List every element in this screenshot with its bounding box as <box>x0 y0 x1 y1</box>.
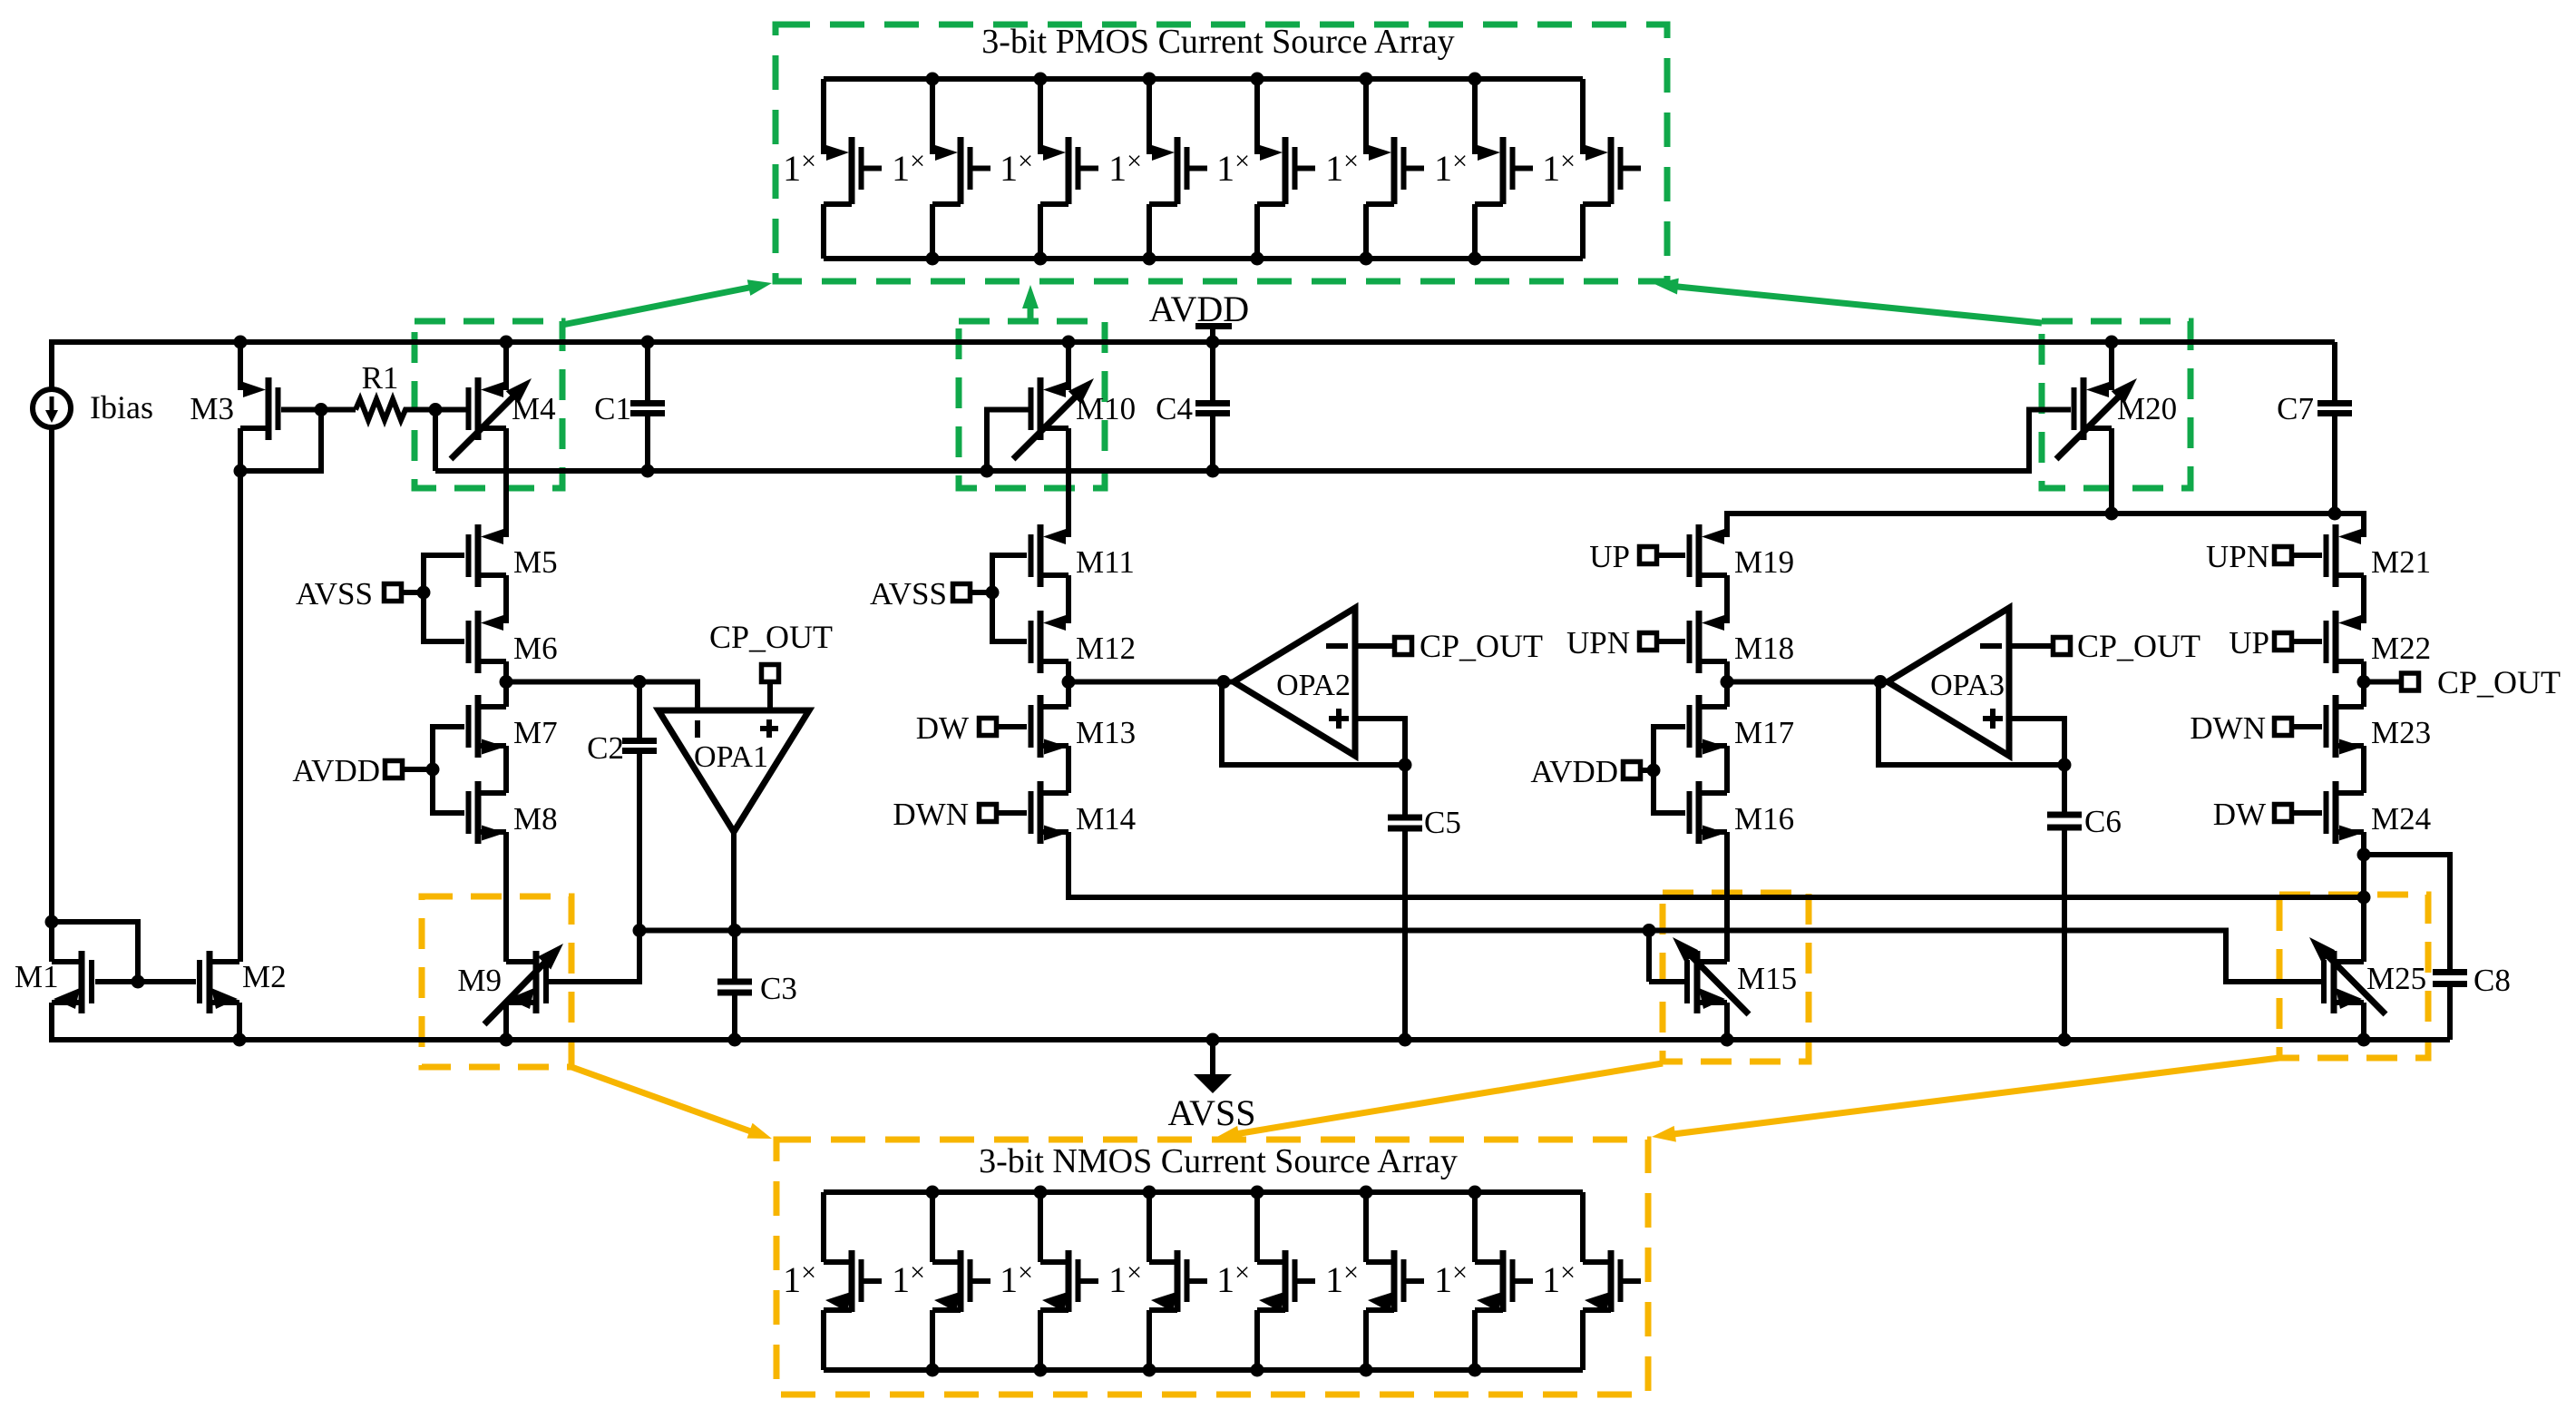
PMOS array cell 1 (1x) <box>821 79 826 154</box>
wire: M24 source down to M25 <box>2361 832 2366 962</box>
capacitor C8 <box>2433 969 2467 975</box>
node: C1 bottom on bias rail <box>641 465 655 478</box>
node: M20 drain junction <box>2105 507 2119 521</box>
wire: M10 gate to bias rail <box>987 410 1029 472</box>
node: NMOS array cell 5 bottom <box>1251 1364 1264 1377</box>
svg-text:M11: M11 <box>1076 544 1135 580</box>
wire: M9 source to AVSS rail <box>503 1003 509 1040</box>
node: C2/M9-gate on control rail <box>633 924 647 937</box>
wire: M17 drain up to node C <box>1724 682 1730 708</box>
OPA2 inverting input marker <box>1326 643 1348 649</box>
node: AVDD riser junction <box>426 763 440 777</box>
svg-text:UP: UP <box>1589 539 1630 574</box>
svg-text:DWN: DWN <box>2190 710 2266 746</box>
wire: M4 gate to R1 node <box>435 407 466 413</box>
callout arrow: M15 cell to NMOS array <box>1230 1063 1663 1135</box>
transistor M13 (NMOS switch, DW) <box>1038 695 1044 758</box>
callout arrow: M20 cell to PMOS array <box>1669 286 2042 323</box>
svg-text:C6: C6 <box>2084 804 2122 839</box>
transistor M3 (PMOS diode-connected) <box>238 342 243 390</box>
node: C6 bottom on AVSS rail <box>2058 1033 2072 1047</box>
port CP_OUT (output) <box>2402 673 2419 690</box>
wire: M17 source to M16 drain <box>1724 746 1730 793</box>
node: C5 bottom on AVSS rail <box>1399 1033 1412 1047</box>
node: PMOS array cell 5 top <box>1251 73 1264 86</box>
adjustment arrow of M4 <box>451 394 516 459</box>
box: M25 trim cell (yellow dashed) <box>2279 895 2428 1058</box>
node: PMOS array cell 7 top <box>1469 73 1482 86</box>
transistor M16 (NMOS) <box>1696 781 1703 844</box>
svg-text:DW: DW <box>2213 797 2266 832</box>
wire: OPA1 output down to control rail <box>731 828 737 931</box>
port DWN <box>996 810 1027 816</box>
node: NMOS array cell 4 top <box>1143 1186 1156 1199</box>
svg-text:R1: R1 <box>362 360 399 396</box>
wire: M17/M16 gate leads and AVDD riser <box>1654 724 1685 729</box>
wire: PMOS array bottom rail <box>824 256 1583 261</box>
transistor M25 (variable NMOS, 3-bit trimmed) <box>2331 951 2337 1013</box>
svg-text:Ibias: Ibias <box>90 389 153 426</box>
node: NMOS array cell 2 bottom <box>926 1364 940 1377</box>
transistor M11 (PMOS cascode) <box>1038 524 1044 587</box>
wire: OPA2 feedback loop to + input <box>1222 682 1405 766</box>
transistor M12 (PMOS cascode) <box>1038 611 1044 673</box>
node: M4 source on top rail <box>500 336 513 349</box>
wire: M8 source down to M9 drain <box>503 832 509 962</box>
svg-text:M5: M5 <box>513 544 558 580</box>
callout arrow: M9 cell to NMOS array <box>571 1067 758 1134</box>
svg-text:M25: M25 <box>2366 961 2426 996</box>
node: OPA2 output/feedback tap <box>1217 675 1231 689</box>
svg-text:AVSS: AVSS <box>296 576 373 612</box>
wire: M5/M6 gate leads and AVSS riser <box>424 553 464 558</box>
svg-text:C4: C4 <box>1156 391 1193 426</box>
svg-text:M15: M15 <box>1737 961 1797 996</box>
op-amp OPA1 <box>659 710 809 832</box>
svg-text:UP: UP <box>2229 625 2269 661</box>
svg-text:C3: C3 <box>760 971 797 1006</box>
svg-text:M13: M13 <box>1076 715 1136 750</box>
PMOS array cell 7 (1x) <box>1472 79 1478 154</box>
svg-text:C8: C8 <box>2474 963 2511 998</box>
wire: node B to OPA2 output <box>1068 680 1234 685</box>
svg-text:M8: M8 <box>513 801 558 837</box>
callout arrow: M4 cell to PMOS array <box>562 286 758 325</box>
node: NMOS array cell 4 bottom <box>1143 1364 1156 1377</box>
svg-text:DW: DW <box>916 710 969 746</box>
svg-text:C2: C2 <box>587 730 624 766</box>
wire: M3 drain down to diode link <box>238 428 243 474</box>
node: M15 source on AVSS rail <box>1721 1033 1734 1047</box>
NMOS array cell 1 (1x) <box>821 1192 826 1262</box>
box: M20 trim cell (green dashed) <box>2042 321 2191 488</box>
wire: bias node down to bias rail <box>433 410 438 472</box>
capacitor C6 <box>2062 765 2067 812</box>
svg-text:OPA2: OPA2 <box>1276 669 1351 702</box>
wire: M22 drain down to CP_OUT node <box>2361 661 2366 682</box>
svg-text:OPA3: OPA3 <box>1930 669 2005 702</box>
wire: C7/M20/M21 line to M19 and M21 sources <box>1727 514 2364 537</box>
NMOS array cell 3 (1x) <box>1038 1192 1043 1262</box>
svg-text:M6: M6 <box>513 631 558 666</box>
node: AVSS riser junction <box>417 586 431 600</box>
wire: AVSS bottom rail <box>52 1037 2450 1042</box>
port DW <box>996 724 1027 729</box>
OPA3 inverting input marker <box>1980 643 2002 649</box>
wire: M21 drain to M22 <box>2361 575 2366 623</box>
node: OPA1 output / C3 on control rail <box>728 924 742 937</box>
box: M9 trim cell (yellow dashed) <box>422 896 571 1067</box>
node: M1 drain junction <box>45 915 59 929</box>
capacitor C7 <box>2332 342 2337 400</box>
svg-text:M18: M18 <box>1734 631 1794 666</box>
svg-text:C5: C5 <box>1424 805 1461 840</box>
transistor M20 (variable PMOS, 3-bit trimmed) <box>2109 342 2114 390</box>
wire: M1 diode link <box>52 922 138 982</box>
node: NMOS array cell 3 bottom <box>1034 1364 1048 1377</box>
wire: M15 source to AVSS rail <box>1724 1003 1730 1040</box>
transistor M15 (variable NMOS, 3-bit trimmed) <box>1694 951 1701 1013</box>
svg-text:M2: M2 <box>242 959 287 994</box>
node C: right cascode midpoint <box>1721 675 1734 689</box>
wire: C8 branch <box>2364 855 2450 969</box>
wire: M2 source to AVSS rail <box>237 1003 242 1040</box>
svg-text:M1: M1 <box>15 959 59 994</box>
wire: node A to OPA1 inverting input <box>506 682 698 714</box>
svg-text:3-bit NMOS Current Source Arra: 3-bit NMOS Current Source Array <box>979 1142 1458 1180</box>
adjustment arrow of M15 <box>1688 953 1749 1014</box>
svg-text:AVSS: AVSS <box>1167 1092 1255 1133</box>
transistor M6 (PMOS cascode) <box>475 611 482 673</box>
svg-text:C1: C1 <box>594 391 631 426</box>
svg-text:M22: M22 <box>2371 631 2431 666</box>
node: M24/C8 junction <box>2357 848 2371 862</box>
node: PMOS array cell 3 top <box>1034 73 1048 86</box>
node: M3 source on top rail <box>234 336 248 349</box>
wire: M11 drain to M12 <box>1066 575 1071 623</box>
svg-text:3-bit PMOS Current Source Arra: 3-bit PMOS Current Source Array <box>981 23 1454 61</box>
OPA3 non-inverting input marker <box>1983 716 2003 721</box>
wire: M19 drain to M18 <box>1724 575 1730 623</box>
port AVDD (right) <box>1640 768 1654 773</box>
node: right AVDD riser junction <box>1647 764 1661 778</box>
node: NMOS array cell 2 top <box>926 1186 940 1199</box>
OPA1 non-inverting input marker <box>760 726 778 731</box>
NMOS array cell 7 (1x) <box>1472 1192 1478 1262</box>
node: PMOS array cell 2 bottom <box>926 252 940 266</box>
capacitor C5 <box>1402 765 1408 815</box>
wire: M20 drain down to C7/M21 line <box>2109 428 2114 514</box>
transistor M14 (NMOS switch, DWN) <box>1038 781 1044 844</box>
wire: M3 diode link (drain to gate) <box>238 410 321 472</box>
transistor M8 (NMOS cascode) <box>475 781 482 844</box>
svg-text:M7: M7 <box>513 715 558 750</box>
transistor M4 (variable PMOS, 3-bit trimmed) <box>503 342 509 390</box>
wire: M7 drain up to node A <box>503 682 509 708</box>
port AVSS (left) <box>401 590 424 595</box>
node: NMOS array cell 7 bottom <box>1469 1364 1482 1377</box>
wire: gate bias rail <box>435 410 2071 472</box>
transistor M17 (NMOS, AVDD gate) <box>1696 695 1703 758</box>
adjustment arrow of M10 <box>1013 394 1078 459</box>
node: C6 top on feedback <box>2058 758 2072 772</box>
adjustment arrow of M9 <box>484 959 548 1024</box>
adjustment arrow of M20 <box>2056 394 2122 459</box>
box: M15 trim cell (yellow dashed) <box>1663 893 1809 1062</box>
svg-text:CP_OUT: CP_OUT <box>709 619 833 655</box>
current source Ibias <box>49 389 54 393</box>
port CP_OUT (OPA3 -) <box>2054 638 2071 655</box>
node: PMOS array cell 7 bottom <box>1469 252 1482 266</box>
node: NMOS array cell 7 top <box>1469 1186 1482 1199</box>
transistor M10 (variable PMOS, 3-bit trimmed) <box>1066 342 1071 390</box>
resistor R1 <box>321 407 356 413</box>
node: C4 bottom on bias rail <box>1206 465 1220 478</box>
node: PMOS array cell 2 top <box>926 73 940 86</box>
PMOS array cell 5 (1x) <box>1254 79 1260 154</box>
node: PMOS array cell 3 bottom <box>1034 252 1048 266</box>
capacitor C1 <box>645 342 650 401</box>
node: CP_OUT output node <box>2357 675 2371 689</box>
ground symbol AVSS <box>1210 1040 1215 1076</box>
wire: control rail (OPA1 output / C2 / C3 / M15 M25 gates) <box>639 931 2324 983</box>
wire: M5 drain to M6 <box>503 575 509 623</box>
wire: NMOS array bottom rail <box>824 1367 1583 1373</box>
svg-text:CP_OUT: CP_OUT <box>1420 628 1543 664</box>
node: M10 gate on bias rail <box>981 465 994 478</box>
callout arrow: M25 cell to NMOS array <box>1666 1058 2279 1135</box>
node: PMOS array cell 6 bottom <box>1360 252 1373 266</box>
port DW (M24) <box>2291 810 2322 816</box>
wire: M15 gate lead riser <box>1646 931 1652 983</box>
PMOS array cell 8 (1x) <box>1580 79 1586 154</box>
svg-text:AVSS: AVSS <box>870 576 947 612</box>
node: M10 source on top rail <box>1062 336 1076 349</box>
node: middle AVSS riser junction <box>986 586 1000 600</box>
wire: M6 drain down to node A <box>503 661 509 682</box>
node: mid rail at M24/M25 <box>2357 891 2371 905</box>
wire: NMOS array top rail <box>824 1189 1583 1195</box>
wire: M18 drain down to node C <box>1724 661 1730 682</box>
svg-text:UPN: UPN <box>2206 539 2269 574</box>
node: M3 drain/diode junction <box>234 465 248 478</box>
svg-text:M19: M19 <box>1734 544 1794 580</box>
transistor M21 (PMOS switch, UPN) <box>2333 524 2339 587</box>
node: PMOS array cell 6 top <box>1360 73 1373 86</box>
svg-text:M24: M24 <box>2371 801 2431 837</box>
power symbol AVDD (top) <box>1195 323 1232 329</box>
transistor M18 (PMOS switch, UPN) <box>1696 611 1703 673</box>
transistor M1 (NMOS mirror, diode-connected) <box>79 951 85 1013</box>
svg-text:CP_OUT: CP_OUT <box>2077 628 2200 664</box>
OPA1 inverting input marker <box>695 720 700 738</box>
node: NMOS array cell 6 bottom <box>1360 1364 1373 1377</box>
node: M25 source on AVSS rail <box>2357 1033 2371 1047</box>
port AVSS (middle) <box>970 590 992 595</box>
wire: M10 drain down to M11 <box>1066 428 1071 537</box>
wire: OPA3 - input to CP_OUT port <box>2009 643 2054 649</box>
port UP (M22) <box>2291 639 2322 644</box>
wire: M23 source to M24 drain <box>2361 746 2366 793</box>
transistor M5 (PMOS cascode) <box>475 524 482 587</box>
svg-text:CP_OUT: CP_OUT <box>2437 664 2561 700</box>
wire: M3 drain down to M2 drain <box>238 471 243 962</box>
PMOS array cell 3 (1x) <box>1038 79 1043 154</box>
port CP_OUT (OPA1 +) <box>767 681 773 713</box>
wire: left rail from top rail to Ibias/M1 <box>49 339 54 962</box>
node: C5 top on feedback <box>1399 758 1412 772</box>
node: M9 source on AVSS rail <box>500 1033 513 1047</box>
wire: AVDD top rail <box>52 339 2335 345</box>
NMOS array cell 6 (1x) <box>1363 1192 1369 1262</box>
wire: M25 source to AVSS rail <box>2361 1003 2366 1040</box>
node: ground on AVSS rail <box>1206 1033 1220 1047</box>
OPA2 non-inverting input marker <box>1329 716 1349 721</box>
PMOS array cell 2 (1x) <box>930 79 935 154</box>
node: AVDD / C4 on top rail <box>1206 336 1220 349</box>
node: PMOS array cell 5 bottom <box>1251 252 1264 266</box>
svg-text:AVDD: AVDD <box>292 753 380 788</box>
wire: M7/M8 gate leads and AVDD riser <box>433 724 464 729</box>
NMOS array cell 2 (1x) <box>930 1192 935 1262</box>
wire: M1/M2 gate link <box>95 979 196 984</box>
svg-text:M23: M23 <box>2371 715 2431 750</box>
port DWN (M23) <box>2291 724 2322 729</box>
port UPN (M18) <box>1656 639 1685 644</box>
svg-text:M14: M14 <box>1076 801 1136 837</box>
PMOS array cell 6 (1x) <box>1363 79 1369 154</box>
wire: OPA2 - input to CP_OUT port <box>1355 643 1395 649</box>
svg-text:M12: M12 <box>1076 631 1136 666</box>
node: M15 gate riser on control rail <box>1643 924 1656 937</box>
wire: M4 drain down to M5 <box>503 428 509 537</box>
capacitor C2 <box>637 682 642 739</box>
wire: M13 drain up to node B <box>1066 682 1071 708</box>
box: M4 trim cell (green dashed) <box>415 321 562 488</box>
port CP_OUT (OPA2 -) <box>1395 638 1412 655</box>
node: OPA3 output/feedback tap <box>1874 675 1888 689</box>
wire: M12 drain down to node B <box>1066 661 1071 682</box>
wire: left rail down to AVSS rail <box>49 1003 54 1042</box>
wire: M11/M12 gate leads and AVSS riser <box>992 553 1027 558</box>
node: M2 source on AVSS rail <box>233 1033 247 1047</box>
port UP (M19) <box>1656 553 1685 558</box>
PMOS array cell 4 (1x) <box>1147 79 1152 154</box>
node: PMOS array cell 4 top <box>1143 73 1156 86</box>
wire: M16 source down to M15 drain <box>1724 832 1730 962</box>
wire: M14 source to mid rail <box>1068 832 2364 897</box>
wire: M13 source to M14 drain <box>1066 746 1071 793</box>
transistor M19 (PMOS switch, UP) <box>1696 524 1703 587</box>
wire: CP_OUT node to port <box>2364 680 2402 685</box>
svg-text:M9: M9 <box>457 963 502 998</box>
svg-text:C7: C7 <box>2277 391 2314 426</box>
svg-text:DWN: DWN <box>893 797 969 832</box>
box: 3-bit NMOS current source array (yellow dashed) <box>776 1140 1648 1395</box>
svg-text:OPA1: OPA1 <box>694 740 768 774</box>
node: R1/M4 gate/bias-rail junction <box>429 403 443 416</box>
svg-text:M16: M16 <box>1734 801 1794 837</box>
adjustment arrow of M25 <box>2325 953 2386 1014</box>
capacitor C3 <box>732 931 737 980</box>
node: C1 on top rail <box>641 336 655 349</box>
svg-text:AVDD: AVDD <box>1530 754 1618 789</box>
svg-text:M3: M3 <box>190 391 234 426</box>
node: C3 bottom on AVSS rail <box>728 1033 742 1047</box>
svg-text:M21: M21 <box>2371 544 2431 580</box>
wire: OPA3 feedback loop to + input <box>1878 682 2064 766</box>
transistor M9 (variable NMOS, 3-bit trimmed) <box>533 951 540 1013</box>
wire: M7 source to M8 drain <box>503 746 509 793</box>
node B: middle cascode midpoint <box>1062 675 1076 689</box>
node: NMOS array cell 3 top <box>1034 1186 1048 1199</box>
node: NMOS array cell 6 top <box>1360 1186 1373 1199</box>
svg-text:AVDD: AVDD <box>1149 289 1249 329</box>
transistor M2 (NMOS mirror) <box>207 951 213 1013</box>
wire: M23 drain up to CP_OUT node <box>2361 682 2366 708</box>
node: PMOS array cell 4 bottom <box>1143 252 1156 266</box>
node: NMOS array cell 5 top <box>1251 1186 1264 1199</box>
NMOS array cell 5 (1x) <box>1254 1192 1260 1262</box>
transistor M7 (NMOS cascode) <box>475 695 482 758</box>
transistor M24 (NMOS switch, DW) <box>2333 781 2339 844</box>
wire: PMOS array top rail <box>824 76 1583 82</box>
wire: node C to OPA3 output <box>1727 680 1888 685</box>
box: 3-bit PMOS current source array (green dashed) <box>776 24 1667 281</box>
wire: M9 gate lead and riser to control rail <box>548 931 639 983</box>
node: M1/M2 gate junction <box>132 975 145 989</box>
svg-text:UPN: UPN <box>1566 625 1630 661</box>
callout arrow: M10 cell to PMOS array <box>1028 299 1034 321</box>
NMOS array cell 4 (1x) <box>1147 1192 1152 1262</box>
node: C2 top <box>633 675 647 689</box>
transistor M22 (PMOS switch, UP) <box>2333 611 2339 673</box>
wire: M3 gate lead to node <box>281 407 321 413</box>
node: M20 source on top rail <box>2105 336 2119 349</box>
node A: left cascode midpoint <box>500 675 513 689</box>
node: C7 bottom junction <box>2328 507 2342 521</box>
box: M10 trim cell (green dashed) <box>959 321 1105 488</box>
port AVDD (left) <box>402 767 433 772</box>
transistor M23 (NMOS switch, DWN) <box>2333 695 2339 758</box>
capacitor C4 <box>1210 342 1215 401</box>
NMOS array cell 8 (1x) <box>1580 1192 1586 1262</box>
node: M3 gate/R1 junction <box>315 403 328 416</box>
svg-text:M17: M17 <box>1734 715 1794 750</box>
port UPN (M21) <box>2291 553 2322 558</box>
